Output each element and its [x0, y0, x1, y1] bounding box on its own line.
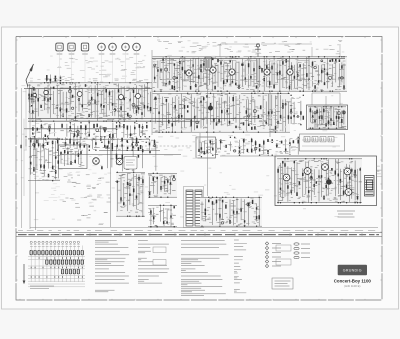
matrix header labels	[30, 244, 80, 246]
interstage network	[211, 137, 300, 156]
FM tuner box	[307, 105, 348, 130]
boxed items B	[276, 245, 291, 265]
svg-text:(HiFi 1100 E): (HiFi 1100 E)	[344, 284, 360, 288]
wire audio feed	[220, 155, 275, 157]
wire bottom bus	[30, 227, 378, 229]
wire mixer rail	[60, 151, 181, 155]
Grundig logo box	[338, 265, 367, 276]
model subtitle	[344, 284, 360, 288]
frame coordinate ticks	[16, 37, 382, 301]
audio amplifier interior	[277, 158, 362, 203]
matrix header contacts	[30, 241, 79, 243]
top feed wires	[220, 44, 340, 60]
tuner coil can B	[88, 90, 98, 104]
transistors T1-T5	[186, 67, 293, 76]
driver stage network	[115, 172, 145, 217]
rectifier network	[200, 197, 262, 227]
electrolytic capacitor C-out	[326, 179, 331, 184]
transistor T11	[93, 158, 100, 165]
switch unit box	[196, 137, 216, 158]
AM detector cluster	[290, 95, 304, 126]
title strip text	[18, 233, 379, 237]
wire bus lines	[24, 59, 345, 129]
label row above tuner band	[30, 79, 150, 83]
antenna coupling cluster	[28, 87, 34, 106]
scan mottle global	[21, 41, 345, 225]
parts list column 2	[138, 241, 169, 284]
legend ovals	[294, 243, 310, 259]
legend diamonds	[265, 242, 281, 268]
IF transformer cans	[160, 61, 309, 80]
title strip lines	[16, 233, 382, 237]
power transformer	[184, 187, 204, 228]
scan mottle upper-left	[57, 57, 143, 79]
scan mottle mid	[164, 136, 297, 156]
terminal sockets	[304, 137, 334, 142]
band lower fringe	[21, 136, 158, 151]
loudspeaker LS1	[365, 176, 375, 197]
annotation box	[124, 157, 137, 170]
switch contact row 3	[61, 270, 79, 274]
pilot lamp L2	[247, 199, 252, 204]
power terminal	[255, 44, 261, 58]
oscillator interior	[60, 147, 85, 167]
top annotations	[157, 40, 342, 54]
AM IF stage network	[153, 93, 291, 133]
control knob symbols	[98, 43, 141, 51]
transistors T6-T10	[33, 90, 141, 99]
audio amplifier box	[275, 156, 377, 206]
speaker side labels	[377, 166, 382, 176]
oscillator box	[59, 145, 88, 169]
switch unit interior	[198, 139, 214, 157]
matrix contact ticks	[31, 257, 82, 278]
connector row lines	[302, 140, 340, 146]
matrix grid	[28, 246, 85, 287]
wire linkage dashed	[119, 145, 193, 147]
wire left drops	[24, 89, 26, 196]
switch contact row 2	[46, 260, 84, 264]
FM box wires	[312, 93, 340, 105]
Grundig logo text	[343, 269, 362, 273]
lower-left wires	[63, 175, 111, 224]
mixer components	[101, 142, 156, 172]
tuner coil can A	[60, 88, 71, 104]
wire frame-side vertical	[21, 88, 23, 228]
matrix caption	[30, 286, 54, 289]
shielded coil can	[205, 57, 212, 70]
svg-text:GRUNDIG: GRUNDIG	[343, 269, 362, 273]
model name	[334, 279, 372, 284]
drawing border frame	[16, 37, 382, 301]
antenna	[26, 64, 34, 104]
note box	[272, 278, 293, 289]
left annotations	[59, 58, 145, 77]
tuner stage network	[28, 82, 153, 122]
scan mottle lower-left	[39, 155, 110, 203]
switch contact row 1	[30, 251, 83, 255]
speaker labels	[337, 211, 355, 217]
switch link wires	[60, 51, 137, 83]
boxed items A	[153, 247, 166, 265]
control labels	[57, 53, 140, 55]
input coil riser	[45, 75, 62, 85]
FM tuner interior	[308, 106, 346, 129]
transistors T13-T17	[283, 164, 352, 196]
electrolytic capacitor C20	[208, 106, 213, 111]
tone network	[148, 173, 177, 198]
FM/IF stage network	[153, 56, 348, 92]
strip annotations	[18, 230, 375, 232]
direction arrow	[23, 264, 26, 284]
pushbutton switch symbols	[56, 43, 89, 51]
wire verticals	[30, 50, 270, 230]
transistor T12	[116, 158, 123, 165]
tuner lower components	[30, 122, 150, 140]
parts list column 3	[181, 241, 228, 296]
parts list column 4	[234, 240, 247, 293]
connector enclosure box	[300, 134, 345, 151]
parts list column 1	[95, 241, 129, 292]
volume network	[148, 205, 177, 228]
pilot lamp L1	[205, 198, 210, 203]
band switch network	[28, 138, 60, 182]
